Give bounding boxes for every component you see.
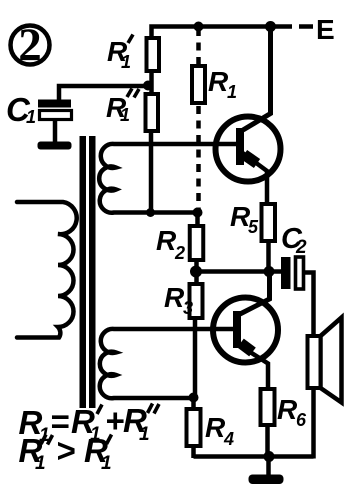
svg-text:1: 1 xyxy=(139,424,150,445)
svg-text:+: + xyxy=(105,402,124,439)
formula line 2: R1'' > R1' xyxy=(19,432,112,474)
supply rail wire (-E net, top) xyxy=(152,27,293,39)
label R5 xyxy=(230,201,259,237)
junction: R1'/R1'' divider / C1 xyxy=(143,81,153,91)
svg-text:1: 1 xyxy=(120,105,130,125)
figure number 2 (circled) xyxy=(11,19,50,71)
svg-text:1: 1 xyxy=(227,82,237,102)
label R1' xyxy=(107,35,133,73)
svg-text:3: 3 xyxy=(183,298,193,318)
transformer secondary winding W1 + base wire of Q1 + tap wire xyxy=(99,144,236,213)
junction: W2 tap / R4 top xyxy=(189,393,199,403)
svg-text:1: 1 xyxy=(35,453,46,474)
svg-text:>: > xyxy=(56,432,75,469)
junction: bottom rail / R6 / ground xyxy=(264,451,275,462)
wire R2/R3 tap to C2 xyxy=(196,269,281,274)
label R4 xyxy=(205,412,234,449)
svg-text:4: 4 xyxy=(223,429,234,449)
transformer core xyxy=(80,136,96,408)
wire R2 to R3 xyxy=(194,260,199,284)
label R1 xyxy=(208,66,237,102)
svg-text:E: E xyxy=(316,14,335,45)
wire R3 down to R4 tap junction xyxy=(193,318,198,398)
svg-text:5: 5 xyxy=(248,217,259,237)
resistor R6 xyxy=(261,389,275,457)
transformer secondary winding W2 + base wire of Q2 + tap wire xyxy=(100,329,233,398)
svg-text:R: R xyxy=(208,66,229,97)
speaker xyxy=(308,318,342,459)
svg-text:R: R xyxy=(164,282,185,313)
formula line 1: R1 = R1' + R1'' xyxy=(19,402,160,446)
svg-text:1: 1 xyxy=(101,453,112,474)
svg-text:2: 2 xyxy=(18,19,42,71)
label -E xyxy=(299,14,335,45)
wire R1'' chain down to winding tap junction xyxy=(149,131,154,213)
svg-text:R: R xyxy=(205,412,226,443)
ground (C1) xyxy=(38,142,72,150)
resistor R2 xyxy=(190,213,204,261)
svg-text:6: 6 xyxy=(296,410,307,430)
resistor R1' xyxy=(147,38,160,71)
bottom rail wire xyxy=(194,454,314,459)
capacitor C1 xyxy=(38,86,148,142)
wire R1' to R1'' xyxy=(149,71,154,94)
capacitor C2 xyxy=(281,257,314,336)
resistor R1'' xyxy=(146,94,159,131)
label C2 xyxy=(281,223,307,258)
resistor R5 xyxy=(262,204,276,241)
svg-text:R: R xyxy=(277,394,298,425)
svg-text:1: 1 xyxy=(26,107,36,127)
junction: W1 tap / R2 top xyxy=(193,208,203,218)
junction: R5 / Q2 collector / C2 xyxy=(264,266,275,277)
svg-text:2: 2 xyxy=(174,243,185,263)
label R2 xyxy=(156,225,185,263)
wire R5 to junction xyxy=(266,241,271,272)
junction: rail / R1 dashed xyxy=(194,22,204,32)
label R6 xyxy=(277,394,307,430)
transformer primary winding with input leads xyxy=(17,202,77,338)
resistor R3 xyxy=(190,284,203,318)
junction: R2/R3 tap xyxy=(190,266,202,278)
label R1'' xyxy=(106,89,139,126)
svg-text:1: 1 xyxy=(121,52,131,72)
junction: W1 tap / R1'' chain xyxy=(146,208,155,217)
svg-text:2: 2 xyxy=(295,237,307,258)
transistor Q1 xyxy=(216,27,281,205)
resistor R1 (dashed alternative) xyxy=(192,28,205,209)
transistor Q2 xyxy=(213,272,278,390)
label C1 xyxy=(6,91,36,128)
label R3 xyxy=(164,282,193,318)
junction: rail / Q1 collector xyxy=(265,21,276,32)
resistor R4 xyxy=(187,398,201,459)
svg-text:R: R xyxy=(156,225,177,256)
ground (bottom) xyxy=(249,457,284,485)
